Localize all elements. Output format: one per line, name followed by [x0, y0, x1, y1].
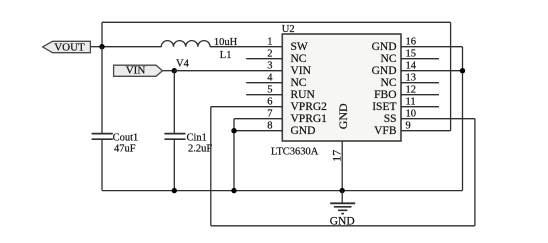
svg-text:15: 15 — [406, 49, 417, 60]
pin 16 GND — [372, 37, 463, 54]
svg-text:ISET: ISET — [372, 101, 396, 113]
port VOUT — [43, 41, 91, 53]
pin 5 RUN — [246, 85, 315, 102]
svg-text:10: 10 — [406, 109, 417, 120]
svg-text:VPRG1: VPRG1 — [291, 113, 328, 125]
svg-text:16: 16 — [406, 37, 417, 48]
svg-text:GND: GND — [291, 125, 316, 137]
svg-text:11: 11 — [406, 97, 416, 108]
junction pin7 pin8 tie — [231, 128, 236, 133]
pin 12 FBO — [374, 85, 439, 102]
wire bottom VPRG2 to SS link — [211, 225, 475, 227]
junction pin 17 ground rail — [340, 188, 345, 193]
svg-text:6: 6 — [267, 97, 272, 108]
junction pins 7 8 ground rail — [231, 188, 236, 193]
svg-text:12: 12 — [406, 85, 417, 96]
svg-text:RUN: RUN — [291, 89, 316, 101]
svg-text:17: 17 — [329, 150, 343, 162]
pin 8 GND — [234, 121, 315, 138]
wire right feedback drop to pin 9 — [450, 22, 452, 130]
svg-text:NC: NC — [381, 53, 397, 65]
capacitor Cin1 — [164, 132, 212, 190]
wire top feedback rail — [102, 21, 451, 23]
wire bottom ground rail — [102, 190, 463, 192]
wire inductor to pin 1 SW — [210, 46, 282, 48]
svg-text:3: 3 — [267, 61, 272, 72]
wire SS riser — [474, 119, 476, 226]
svg-text:2.2uF: 2.2uF — [188, 144, 212, 155]
wire right ground drop pin16 pin14 to rail — [462, 47, 464, 191]
wire node V4 to pin 3 VIN — [174, 70, 282, 72]
ground GND symbol — [330, 191, 355, 228]
node VOUT junction — [99, 44, 104, 49]
pin 9 VFB — [374, 121, 411, 138]
svg-text:VIN: VIN — [126, 65, 146, 77]
pin 14 GND — [372, 61, 463, 78]
svg-text:47uF: 47uF — [114, 144, 136, 155]
capacitor Cout1 — [92, 47, 139, 191]
pin 4 NC — [246, 73, 307, 90]
wire node V4 down to Cin1 — [173, 71, 175, 134]
IC U2 LTC3630A body — [271, 24, 401, 158]
wire VIN flag to node V4 — [163, 70, 175, 72]
wire VPRG2 down route — [210, 107, 212, 226]
svg-text:1: 1 — [267, 37, 272, 48]
pin 17 GND wire — [329, 141, 343, 191]
junction pin 14 GND — [460, 68, 465, 73]
pin 3 VIN — [267, 61, 311, 78]
svg-text:LTC3630A: LTC3630A — [271, 147, 319, 158]
node V4 — [172, 59, 190, 74]
wire VOUT junction to inductor — [102, 46, 162, 48]
port VIN — [114, 65, 163, 77]
pin 7 VPRG1 — [234, 109, 327, 126]
svg-text:GND: GND — [336, 103, 350, 129]
svg-text:SS: SS — [384, 113, 397, 125]
svg-text:GND: GND — [372, 41, 397, 53]
pin 13 NC — [381, 73, 439, 90]
wire pin 9 VFB — [401, 130, 451, 132]
pin 15 NC — [381, 49, 439, 66]
svg-text:Cin1: Cin1 — [187, 132, 207, 143]
svg-text:FBO: FBO — [374, 89, 396, 101]
svg-text:NC: NC — [291, 77, 307, 89]
pin 1 SW — [267, 37, 308, 54]
svg-text:Cout1: Cout1 — [113, 132, 139, 143]
svg-text:7: 7 — [267, 109, 272, 120]
svg-text:L1: L1 — [220, 50, 232, 61]
pin 2 NC — [246, 49, 307, 66]
pin 10 SS — [384, 109, 475, 126]
svg-text:V4: V4 — [176, 59, 190, 70]
pin 11 ISET — [372, 97, 439, 114]
svg-text:4: 4 — [267, 73, 273, 84]
wire VOUT flag to junction — [90, 46, 102, 48]
svg-text:NC: NC — [291, 53, 307, 65]
svg-text:VOUT: VOUT — [54, 42, 85, 54]
inductor L1 — [161, 37, 237, 61]
svg-text:8: 8 — [267, 121, 272, 132]
svg-text:NC: NC — [381, 77, 397, 89]
wire left rail up from VOUT junction — [101, 22, 103, 46]
svg-text:VPRG2: VPRG2 — [291, 101, 328, 113]
svg-text:5: 5 — [267, 85, 272, 96]
svg-text:9: 9 — [406, 121, 411, 132]
svg-text:U2: U2 — [282, 24, 295, 35]
pin 6 VPRG2 — [211, 97, 327, 114]
junction Cin1 ground rail — [172, 188, 177, 193]
svg-text:SW: SW — [291, 41, 308, 53]
svg-text:GND: GND — [372, 65, 397, 77]
svg-text:VIN: VIN — [291, 65, 312, 77]
svg-text:2: 2 — [267, 49, 272, 60]
svg-text:VFB: VFB — [374, 125, 397, 137]
svg-text:14: 14 — [406, 61, 417, 72]
svg-text:13: 13 — [406, 73, 417, 84]
wire pin7 to pin8 tie and drop to ground rail — [233, 119, 235, 191]
svg-text:GND: GND — [330, 215, 355, 227]
